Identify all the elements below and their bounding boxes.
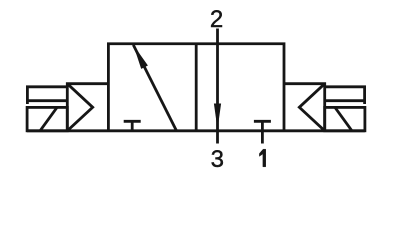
pilot box left	[67, 84, 108, 131]
solenoid right coil rails	[325, 87, 366, 104]
blocked port T left square stem	[131, 121, 134, 131]
solenoid left box	[27, 107, 67, 130]
wire port 1 stem	[261, 121, 264, 143]
solenoid left diagonal	[40, 107, 57, 130]
svg-text:2: 2	[210, 6, 223, 33]
arrowhead down (2 to 3)	[214, 104, 221, 130]
port label 1	[259, 149, 265, 167]
pilot box right	[284, 84, 325, 131]
svg-text:3: 3	[211, 146, 224, 173]
flow path arrow shaft left square	[133, 45, 176, 131]
blocked port T left square crossbar	[124, 120, 141, 123]
wire port 2 to port 3	[216, 29, 219, 144]
solenoid right diagonal	[335, 107, 352, 130]
pilot triangle right	[299, 84, 324, 131]
valve body center divider	[195, 44, 198, 131]
valve body outline	[108, 44, 284, 131]
pilot triangle left	[67, 84, 92, 131]
solenoid right box	[325, 107, 365, 130]
wire bottom rail	[27, 129, 365, 132]
blocked port 1 crossbar	[254, 120, 271, 123]
solenoid left coil rails	[26, 87, 67, 104]
arrowhead up-left (1 to 2)	[133, 45, 148, 69]
